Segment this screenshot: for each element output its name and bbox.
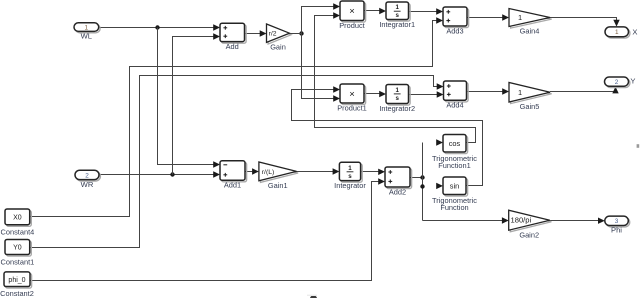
svg-text:2: 2 bbox=[615, 79, 619, 86]
svg-text:Gain5: Gain5 bbox=[520, 102, 540, 111]
constant block X0 bbox=[1, 209, 35, 236]
svg-text:Function1: Function1 bbox=[438, 161, 470, 170]
junction WL branch bbox=[155, 25, 159, 29]
gain block Gain2 180/pi bbox=[509, 210, 552, 239]
input port 2 WR bbox=[75, 170, 100, 189]
svg-text:Gain2: Gain2 bbox=[519, 230, 539, 239]
wire Add2 out to junction phi bbox=[410, 177, 423, 179]
svg-text:X0: X0 bbox=[13, 215, 22, 222]
gain block Gain r/2 bbox=[267, 24, 292, 52]
svg-text:Phi: Phi bbox=[611, 226, 622, 235]
svg-text:Add4: Add4 bbox=[446, 101, 463, 110]
junction WR branch bbox=[170, 172, 174, 176]
svg-text:s: s bbox=[348, 173, 352, 180]
svg-text:Gain1: Gain1 bbox=[268, 181, 288, 190]
wire cos feedback to Product in2 bbox=[315, 16, 476, 143]
gain block Gain5 bbox=[509, 83, 552, 112]
wire phi vertical bbox=[422, 143, 424, 221]
svg-text:1: 1 bbox=[395, 87, 399, 94]
svg-text:s: s bbox=[395, 95, 399, 102]
svg-text:Add3: Add3 bbox=[446, 26, 463, 35]
wire WL source to Add in1 bbox=[99, 27, 214, 29]
svg-text:r/2: r/2 bbox=[269, 31, 277, 38]
output port 2 Y bbox=[605, 76, 636, 87]
svg-text:Constant2: Constant2 bbox=[0, 289, 34, 298]
svg-text:Function: Function bbox=[440, 203, 468, 212]
trig block cos bbox=[432, 135, 477, 171]
svg-text:Y: Y bbox=[630, 76, 635, 85]
svg-text:2: 2 bbox=[85, 172, 89, 179]
svg-text:Constant1: Constant1 bbox=[1, 258, 35, 267]
svg-text:Gain: Gain bbox=[270, 43, 286, 52]
wire Gain2 out to port Phi bbox=[550, 220, 599, 222]
svg-text:Integrator2: Integrator2 bbox=[379, 104, 415, 113]
svg-text:Constant4: Constant4 bbox=[1, 227, 35, 236]
wire sin feedback to Product1 in1 bbox=[292, 90, 483, 186]
svg-text:sin: sin bbox=[450, 181, 459, 190]
output port 3 Phi bbox=[605, 216, 630, 235]
wire Product out to Integrator1 bbox=[364, 10, 380, 12]
svg-text:1: 1 bbox=[395, 4, 399, 11]
wire Gain out to junction v bbox=[290, 33, 302, 35]
svg-text:WL: WL bbox=[81, 32, 92, 41]
svg-text:×: × bbox=[349, 89, 355, 100]
svg-text:s: s bbox=[395, 12, 399, 19]
wire Gain5 out to port Y bbox=[550, 91, 616, 92]
svg-text:1: 1 bbox=[85, 25, 89, 32]
gain block Gain4 bbox=[509, 9, 552, 36]
svg-text:cos: cos bbox=[449, 139, 461, 148]
svg-text:1: 1 bbox=[518, 13, 522, 22]
svg-text:phi_0: phi_0 bbox=[8, 277, 25, 284]
wire Gain1 out to Integrator bbox=[297, 171, 334, 173]
sum block Add1 bbox=[220, 161, 247, 190]
wire Add3 out to Gain4 bbox=[467, 17, 503, 19]
svg-text:3: 3 bbox=[615, 218, 619, 225]
wire phi to Gain2 bbox=[423, 220, 503, 222]
sum block Add4 bbox=[444, 81, 469, 110]
wire Integrator2 out to Add4 in2 bbox=[409, 94, 438, 96]
sum block Add2 bbox=[385, 167, 412, 196]
integrator block Integrator bbox=[334, 162, 366, 190]
output port 1 X bbox=[605, 27, 637, 38]
sum block Add3 bbox=[443, 7, 469, 35]
wire Product1 out to Integrator2 bbox=[364, 93, 380, 95]
wire WR source to Add1 in2 bbox=[99, 174, 214, 176]
wire Integrator out to Add2 in1 bbox=[361, 171, 379, 173]
product block Product1 bbox=[337, 84, 367, 112]
wire Gain4 out to port X bbox=[550, 18, 617, 22]
svg-text:WR: WR bbox=[81, 180, 94, 189]
wire WL branch down to Add1 in1 bbox=[158, 28, 214, 165]
wire v up to Product in1 bbox=[302, 7, 334, 34]
svg-text:Add2: Add2 bbox=[389, 187, 406, 196]
svg-text:1: 1 bbox=[615, 29, 619, 36]
wire Add1 out to Gain1 bbox=[245, 171, 252, 173]
gain block Gain1 r/(L) bbox=[259, 162, 298, 190]
svg-text:1: 1 bbox=[348, 165, 352, 172]
wire Add out to Gain bbox=[245, 33, 261, 35]
junction phi to sin bbox=[420, 184, 424, 188]
wire WR branch up to Add in2 bbox=[173, 37, 214, 175]
integrator block Integrator2 bbox=[379, 85, 415, 113]
product block Product bbox=[339, 1, 365, 30]
svg-text:Y0: Y0 bbox=[13, 245, 22, 252]
wire Add4 out to Gain5 bbox=[467, 91, 503, 93]
svg-text:Integrator1: Integrator1 bbox=[379, 20, 415, 29]
svg-text:Add: Add bbox=[226, 42, 239, 51]
svg-text:1: 1 bbox=[518, 88, 522, 97]
svg-text:X: X bbox=[632, 28, 637, 37]
wire v down to Product1 in2 bbox=[302, 34, 334, 99]
constant block phi_0 bbox=[0, 272, 34, 298]
svg-text:Gain4: Gain4 bbox=[520, 27, 540, 36]
svg-text:×: × bbox=[349, 6, 355, 17]
cropped label artifact bottom center bbox=[310, 295, 317, 298]
constant block Y0 bbox=[1, 240, 35, 267]
arrowheads into blocks bbox=[213, 3, 620, 224]
svg-text:Add1: Add1 bbox=[224, 181, 241, 190]
wire phi_0 to Add2 in2 bbox=[30, 182, 379, 281]
svg-text:Product: Product bbox=[339, 21, 364, 30]
integrator block Integrator1 bbox=[379, 2, 415, 29]
wire Y0 to Add4 in1 bbox=[30, 76, 438, 248]
junction node v bbox=[299, 31, 303, 35]
input port 1 WL bbox=[74, 23, 100, 41]
trig block sin bbox=[432, 177, 477, 212]
svg-text:r/(L): r/(L) bbox=[262, 169, 274, 176]
junction phi node bbox=[420, 175, 424, 179]
wire X0 to Add3 in2 bbox=[30, 21, 437, 217]
svg-text:Product1: Product1 bbox=[337, 103, 367, 112]
small mark right edge bbox=[637, 144, 640, 148]
sum block Add bbox=[220, 23, 246, 51]
svg-text:Integrator: Integrator bbox=[334, 181, 366, 190]
svg-text:180/pi: 180/pi bbox=[511, 216, 532, 225]
wire Integrator1 out to Add3 in1 bbox=[409, 11, 437, 13]
